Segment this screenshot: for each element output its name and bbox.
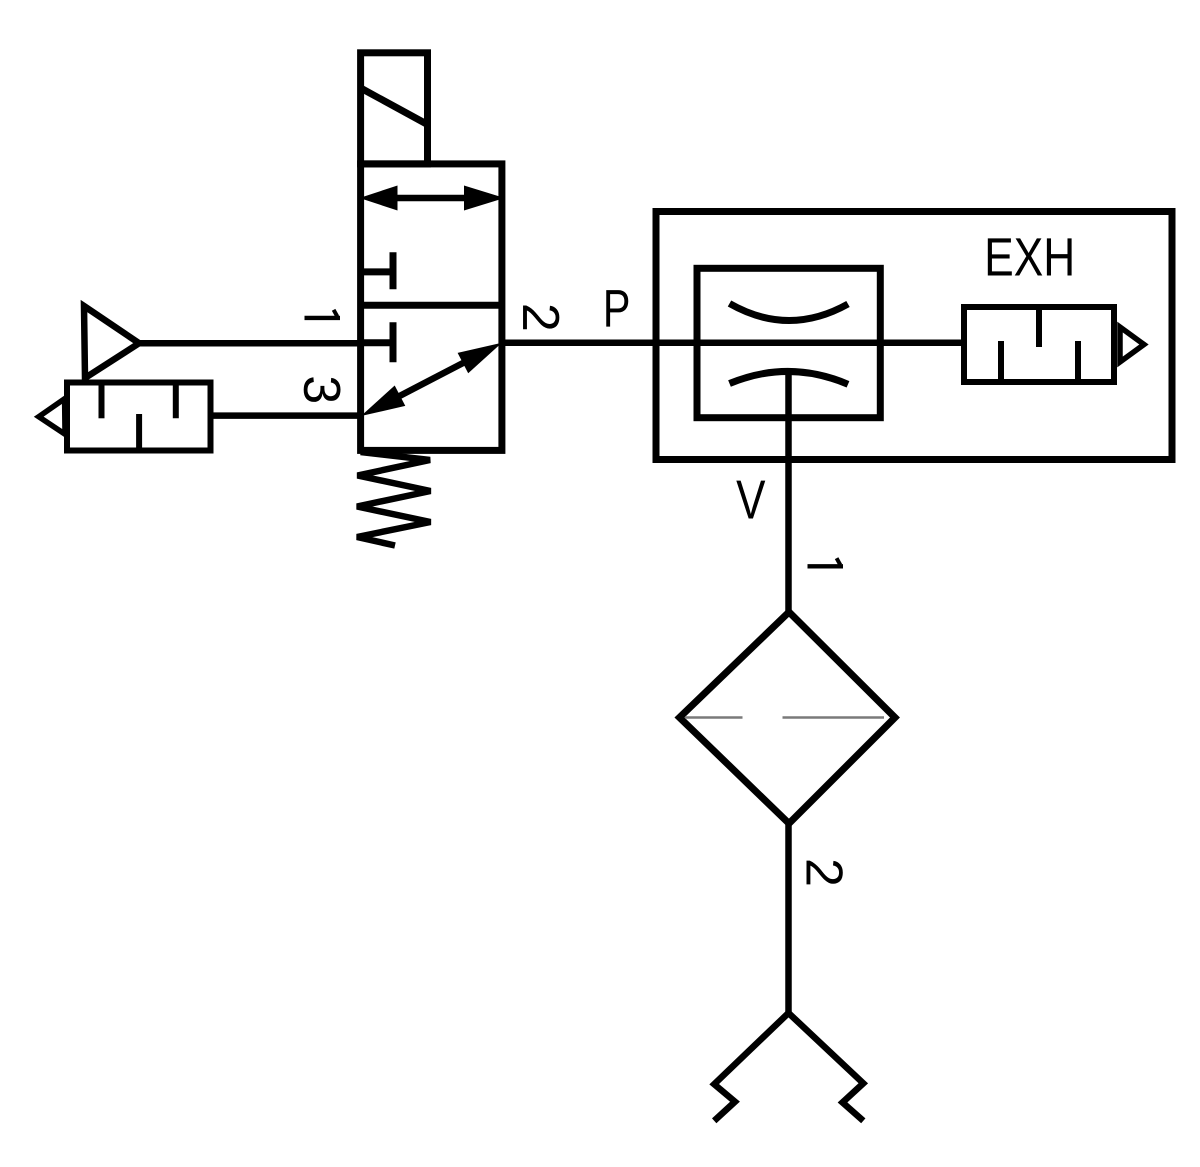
wire: V vacuum line	[785, 372, 792, 613]
return spring	[357, 452, 431, 546]
port label 1 (valve)	[305, 310, 341, 318]
vacuum filter diamond	[680, 612, 896, 824]
venturi nozzle inner box	[697, 268, 880, 417]
filter element line (thin)	[685, 716, 884, 719]
port label V	[736, 481, 765, 519]
exhaust muffler (right)	[964, 307, 1114, 382]
vacuum ejector outer box	[656, 212, 1172, 460]
silencer left triangle	[39, 399, 65, 435]
valve body (3/2 valve)	[361, 164, 502, 451]
solenoid actuator box	[361, 53, 428, 164]
wire: port 3 exhaust line	[211, 412, 361, 419]
wire: P line (port 2 to ejector)	[502, 340, 961, 347]
blocked port T (top cell)	[361, 252, 393, 289]
port label 2 (valve)	[523, 306, 559, 330]
exhaust right triangle	[1120, 327, 1144, 362]
silencer muffler (left)	[67, 383, 211, 451]
blocked port T (port 1, bottom cell)	[361, 322, 393, 362]
port label 2 (filter)	[807, 861, 843, 885]
venturi top arc	[730, 304, 849, 321]
port label P	[606, 290, 628, 326]
wire: filter to suction cup	[785, 824, 792, 1014]
port label 1 (filter)	[808, 558, 844, 566]
wire: port 1 supply line	[139, 340, 361, 347]
port label EXH	[988, 238, 1072, 275]
flow path double arrow 3-2 (bottom cell)	[361, 343, 502, 416]
pressure source triangle	[84, 306, 139, 378]
double-headed arrow actuator (top cell)	[360, 186, 505, 211]
suction cup / gripper fork	[714, 1013, 863, 1121]
port label 3 (valve)	[304, 377, 341, 402]
venturi bottom arc	[730, 371, 849, 384]
